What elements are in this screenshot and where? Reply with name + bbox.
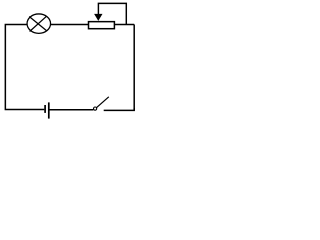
wire lamp to rheostat	[50, 24, 88, 26]
wire right vertical	[133, 25, 135, 111]
wire bottom right (switch to corner)	[104, 108, 135, 110]
switch S pivot circle	[94, 107, 97, 110]
lamp L1 cross diagonal 2	[30, 16, 47, 31]
rheostat R body	[89, 22, 115, 29]
switch S blade	[97, 97, 109, 108]
wire rheostat right lead to right corner	[114, 24, 134, 26]
battery cell short plate (negative)	[44, 105, 46, 113]
wire battery to switch	[50, 109, 94, 111]
battery cell long plate (positive)	[48, 102, 50, 118]
lamp L1 bulb ellipse	[27, 14, 51, 33]
lamp L1 cross diagonal 1	[29, 17, 47, 32]
rheostat wiper stem and loop to T-junction	[98, 3, 126, 24]
rheostat wiper arrowhead	[94, 14, 102, 21]
wire left side (top-left corner down to bottom-left corner)	[5, 25, 44, 110]
